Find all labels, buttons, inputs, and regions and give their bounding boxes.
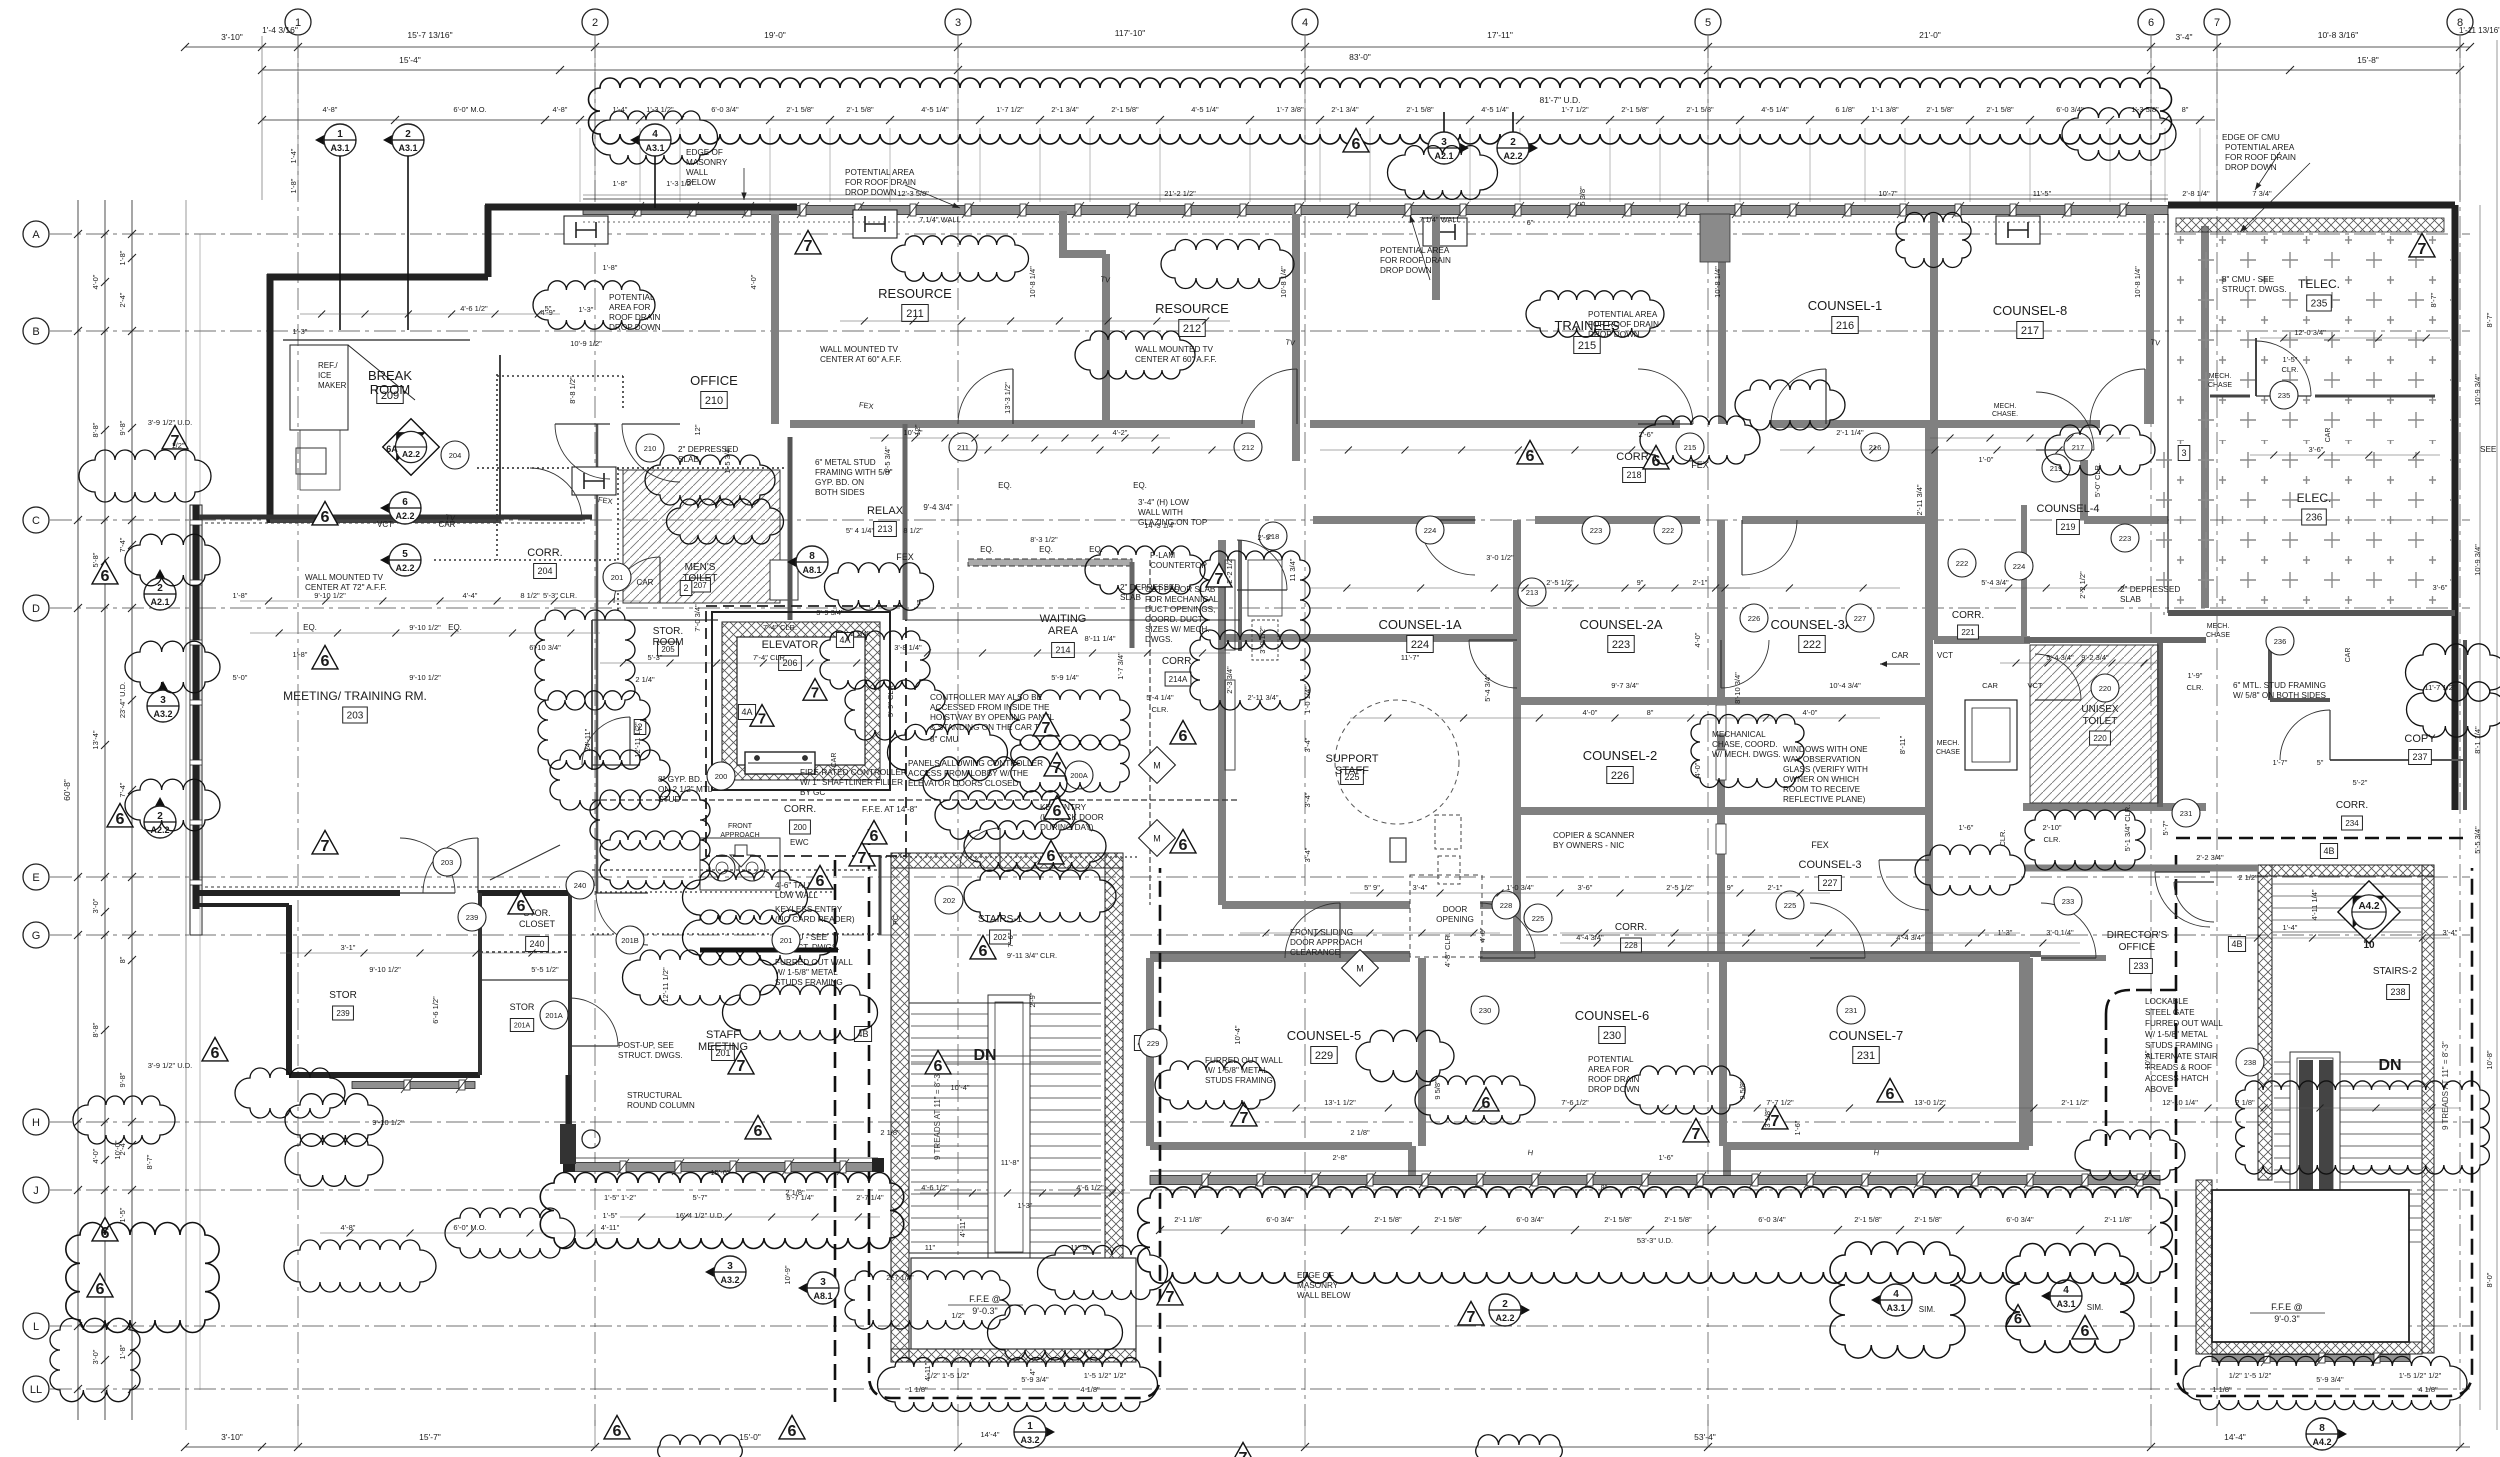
svg-text:215: 215 [1684,443,1697,452]
svg-text:ELEVATOR DOORS CLOSED: ELEVATOR DOORS CLOSED [908,779,1019,788]
svg-text:6: 6 [517,897,526,915]
boxed tag 236 [2302,509,2327,525]
svg-text:200A: 200A [1070,771,1088,780]
svg-text:7'-6": 7'-6" [1006,932,1015,947]
svg-text:POTENTIAL AREA: POTENTIAL AREA [845,168,915,177]
svg-text:8'-8 1/2": 8'-8 1/2" [568,376,577,404]
svg-text:WAY OBSERVATION: WAY OBSERVATION [1783,755,1861,764]
svg-text:STOR: STOR [329,990,357,1001]
wall [1150,1142,1412,1150]
svg-text:9'-11 3/4" CLR.: 9'-11 3/4" CLR. [1007,951,1057,960]
svg-text:10'-9": 10'-9" [783,1265,792,1284]
svg-text:222: 222 [1803,639,1821,651]
wall [1770,420,2100,428]
svg-text:4'-0": 4'-0" [1693,762,1702,777]
svg-text:BY OWNERS - NIC: BY OWNERS - NIC [1553,841,1624,850]
svg-text:10'-4 3/4": 10'-4 3/4" [1829,681,1861,690]
revision cloud [1830,1242,1965,1358]
boxed tag 231 [1853,1047,1879,1064]
boxed tag 201A [510,1019,533,1032]
svg-text:WINDOWS WITH ONE: WINDOWS WITH ONE [1783,745,1868,754]
revision cloud [1388,146,1498,200]
svg-text:7: 7 [1467,1308,1476,1326]
wall [2168,202,2455,209]
svg-text:FOR ROOF DRAIN: FOR ROOF DRAIN [845,178,916,187]
boxed tag 229 [1311,1047,1337,1064]
svg-text:1 1/8": 1 1/8" [908,1385,928,1394]
revision cloud [1075,331,1195,379]
corr 234 boundary dashed [2176,837,2470,840]
svg-text:8" CMU: 8" CMU [930,735,958,744]
structural round column [582,1130,600,1148]
svg-text:2 1/2": 2 1/2" [2238,873,2258,882]
svg-text:3'-6": 3'-6" [1578,883,1593,892]
svg-text:MASONRY: MASONRY [1297,1281,1339,1290]
grid bubble 7 [2204,9,2230,35]
bottom dimension strings [185,1446,2470,1448]
svg-text:(NO CARD READER): (NO CARD READER) [775,915,855,924]
support staff dashed circle [1335,700,1459,824]
svg-text:TV: TV [1285,337,1296,347]
section marker 4/A3.1 [2041,1282,2066,1309]
boxed tag 211 [902,305,928,322]
wall [1150,954,1410,962]
svg-text:10'-8 1/4": 10'-8 1/4" [1713,266,1722,298]
wall [2201,226,2209,608]
boxed tag 239 [333,1006,354,1020]
svg-text:1 1/8": 1 1/8" [2212,1385,2232,1394]
svg-text:FRONT: FRONT [728,823,753,830]
boxed tag 234 [2342,816,2363,830]
svg-text:8": 8" [118,956,127,963]
svg-text:WALL WITH: WALL WITH [1138,508,1183,517]
wall [1930,214,1938,424]
wall [1222,634,1517,642]
boxed tag 228 [1621,938,1642,952]
svg-text:4'-6 1/2": 4'-6 1/2" [460,304,488,313]
svg-text:83'-0": 83'-0" [1349,52,1371,62]
svg-text:17'-11": 17'-11" [1487,30,1513,40]
svg-text:11": 11" [925,1243,936,1252]
svg-text:4'-8" CLR.: 4'-8" CLR. [1443,933,1452,967]
svg-text:2'-1 5/8": 2'-1 5/8" [1434,1215,1462,1224]
svg-text:4: 4 [1302,17,1308,29]
svg-text:7: 7 [2418,240,2427,258]
svg-text:8": 8" [1601,1183,1608,1192]
svg-text:1'-8": 1'-8" [233,591,248,600]
svg-text:CLR.: CLR. [2186,683,2203,692]
revision triangle 7 [1033,712,1059,735]
svg-text:6'-0 3/4": 6'-0 3/4" [2006,1215,2034,1224]
section marker 4/A3.1 [630,126,655,153]
revision triangle 6 [1473,1087,1499,1110]
svg-text:10'-9 3/4": 10'-9 3/4" [2473,544,2482,576]
boxed tag 203 [343,707,368,723]
svg-text:201A: 201A [514,1023,531,1030]
grid bubble 4 [1292,9,1318,35]
svg-text:9'-10 1/2": 9'-10 1/2" [409,623,441,632]
svg-text:E: E [32,872,39,884]
door swing [614,557,660,603]
svg-text:BY GC: BY GC [800,788,825,797]
svg-text:COPY: COPY [2404,733,2436,745]
svg-text:223: 223 [2119,534,2132,543]
revision cloud [683,871,808,924]
revision cloud [645,455,775,505]
svg-text:2'-1 5/8": 2'-1 5/8" [1914,1215,1942,1224]
door swing [596,893,648,945]
revision cloud [1011,735,1130,792]
svg-text:236: 236 [2274,637,2287,646]
svg-text:4'-5 1/4": 4'-5 1/4" [1761,105,1789,114]
svg-text:FRAMING WITH 5/8": FRAMING WITH 5/8" [815,468,893,477]
svg-text:1'-7 3/8": 1'-7 3/8" [1276,105,1304,114]
svg-text:2: 2 [405,129,411,140]
boxed tag 214 [1052,643,1075,658]
svg-text:226: 226 [1748,614,1761,623]
svg-text:POTENTIAL AREA: POTENTIAL AREA [1380,246,1450,255]
svg-text:7: 7 [1239,1449,1248,1457]
svg-text:11'-8": 11'-8" [1001,1158,1020,1167]
revision triangle 7 [1230,1442,1256,1457]
revision triangle 7 [795,230,821,253]
svg-text:8'-7": 8'-7" [145,1154,154,1169]
svg-text:4'-11": 4'-11" [958,1218,967,1237]
revision triangle 6 [807,865,833,888]
svg-text:STRUCT. DWGS.: STRUCT. DWGS. [2222,285,2287,294]
svg-text:CLOSET: CLOSET [519,919,556,929]
svg-text:ICE: ICE [318,371,331,380]
svg-text:REFLECTIVE PLANE): REFLECTIVE PLANE) [1783,795,1866,804]
svg-text:FIRE-RATED CONTROLLER: FIRE-RATED CONTROLLER [800,768,907,777]
svg-text:2 1/8": 2 1/8" [2235,1098,2255,1107]
wall [2021,505,2027,640]
svg-text:SUPPORT: SUPPORT [1326,753,1379,765]
revision cloud [600,831,710,889]
right column TELEC/ELEC block [2167,214,2169,613]
svg-text:C: C [32,515,40,527]
svg-text:8'-3 1/2": 8'-3 1/2" [1030,535,1058,544]
svg-text:COUNSEL-5: COUNSEL-5 [1287,1028,1361,1043]
svg-text:7 1/4" WALL: 7 1/4" WALL [919,215,961,224]
svg-text:2'-10": 2'-10" [2042,823,2061,832]
svg-text:1'-0 3/4": 1'-0 3/4" [1506,883,1534,892]
svg-text:SLAB: SLAB [2120,595,2141,604]
svg-text:POTENTIAL: POTENTIAL [609,293,655,302]
wall [2025,958,2033,1146]
boxed tag 201 [712,1046,735,1061]
revision cloud [1155,1061,1275,1109]
svg-text:STAIRS-2: STAIRS-2 [2373,966,2418,977]
boxed tag 233 [2130,959,2153,974]
svg-text:6" METAL STUD: 6" METAL STUD [815,458,876,467]
wall [1480,954,2030,962]
door number circles [441,441,469,469]
svg-text:9'-8": 9'-8" [118,420,127,435]
svg-text:DIRECTOR'S: DIRECTOR'S [2107,930,2168,941]
svg-text:B: B [32,326,39,338]
svg-text:228: 228 [1500,901,1513,910]
svg-text:1'-7 1/2": 1'-7 1/2" [996,105,1024,114]
svg-text:7: 7 [858,849,867,867]
boxed tag 205 [658,642,679,656]
revision cloud [1476,1435,1563,1457]
svg-text:4'-2": 4'-2" [1113,428,1128,437]
wall [1313,516,1475,524]
revision triangle 7 [1762,1105,1788,1128]
svg-text:EQ.: EQ. [448,623,462,632]
svg-text:230: 230 [1479,1006,1492,1015]
svg-text:2 1/4": 2 1/4" [635,675,655,684]
svg-text:217: 217 [2072,443,2085,452]
svg-text:13'-0 1/2": 13'-0 1/2" [1914,1098,1946,1107]
svg-text:4A: 4A [741,707,752,717]
svg-text:4'-8": 4'-8" [323,105,338,114]
svg-text:1'-5 1/2" 1/2": 1'-5 1/2" 1/2" [1084,1371,1127,1380]
revision cloud [66,1223,219,1333]
svg-text:A3.1: A3.1 [398,143,417,153]
svg-text:LL: LL [30,1384,42,1396]
svg-text:2'-1 3/4": 2'-1 3/4" [1051,105,1079,114]
svg-text:8'-8": 8'-8" [91,422,100,437]
bottom extension lines to dim row [297,1420,299,1447]
revision cloud [667,499,784,544]
revision triangle 6 [2006,1305,2030,1327]
svg-text:81'-7" U.D.: 81'-7" U.D. [1539,95,1580,105]
revision cloud [1138,1187,2173,1283]
svg-text:7'-4": 7'-4" [118,537,127,552]
svg-text:10'-0": 10'-0" [113,1140,122,1159]
svg-text:15'-0": 15'-0" [739,1432,761,1442]
revision cloud [73,1096,175,1144]
svg-text:224: 224 [1424,526,1437,535]
boxed tag 224 [1407,636,1433,653]
svg-text:2'-8": 2'-8" [1333,1153,1348,1162]
revision cloud [1200,551,1310,649]
boxed tag 214A [1165,672,1191,686]
svg-text:STAFF: STAFF [1335,765,1369,777]
revision cloud [623,950,778,1005]
svg-text:3'-0 1/2": 3'-0 1/2" [1486,553,1514,562]
revision cloud [538,691,650,769]
grid bubble J [23,1177,49,1203]
section marker 2/A2.1 [146,569,173,594]
svg-text:6: 6 [2081,1322,2090,1340]
door swing [2041,903,2096,958]
svg-text:ELEVATOR: ELEVATOR [762,639,819,651]
svg-text:6: 6 [816,872,825,890]
svg-text:2: 2 [1510,137,1516,148]
svg-text:225: 225 [1532,914,1545,923]
revision cloud [2045,425,2155,475]
svg-text:9'-10 1/2": 9'-10 1/2" [314,591,346,600]
svg-text:WALL BELOW: WALL BELOW [1297,1291,1351,1300]
svg-text:6: 6 [211,1044,220,1062]
grid bubble 6 [2138,9,2164,35]
svg-text:4'-11": 4'-11" [601,1223,620,1232]
svg-text:12": 12" [693,424,702,435]
svg-text:LOW WALL: LOW WALL [775,891,818,900]
svg-text:8: 8 [2319,1423,2325,1434]
svg-text:1'-5" 1'-2": 1'-5" 1'-2" [604,1193,636,1202]
svg-text:5'-9 3/4": 5'-9 3/4" [2316,1375,2344,1384]
svg-text:6: 6 [979,942,988,960]
boxed tag 200 [790,820,811,834]
revision cloud [1085,546,1205,594]
right side dim verticals [2479,205,2481,1410]
revision triangle 6 [87,1273,113,1296]
svg-text:CORR.: CORR. [2336,800,2368,811]
svg-text:1'-6": 1'-6" [1959,823,1974,832]
svg-text:6: 6 [613,1422,622,1440]
svg-text:2'-1 1/8": 2'-1 1/8" [1174,1215,1202,1224]
svg-text:DN: DN [2378,1057,2401,1074]
stor closet 240 walls [480,951,570,953]
svg-text:227: 227 [1822,878,1837,888]
svg-text:5'-4 3/4": 5'-4 3/4" [1483,674,1492,702]
boxed tag 2 [634,720,646,735]
svg-text:7'-4" CLR.: 7'-4" CLR. [753,653,787,662]
svg-text:6'-0" M.O.: 6'-0" M.O. [453,105,486,114]
revision triangle 7 [1231,1102,1257,1125]
svg-text:6: 6 [96,1280,105,1298]
grid bubble A [23,221,49,247]
svg-text:2" DEPRESSED: 2" DEPRESSED [2120,585,2180,594]
svg-text:FOR ROOF DRAIN: FOR ROOF DRAIN [1588,320,1659,329]
svg-text:VCT: VCT [1937,651,1953,660]
svg-text:CAR: CAR [2325,428,2332,443]
svg-text:211: 211 [957,443,969,452]
svg-text:ROOF DRAIN: ROOF DRAIN [1588,1075,1639,1084]
svg-text:3'-9 3/4": 3'-9 3/4" [816,608,844,617]
wall [1723,1146,1731,1176]
svg-text:ACCESS HATCH: ACCESS HATCH [2145,1074,2209,1083]
svg-text:9'-0.3": 9'-0.3" [2274,1314,2299,1324]
revision cloud [878,1358,1158,1412]
svg-text:8": 8" [2182,105,2189,114]
svg-text:DURING DAY): DURING DAY) [1040,823,1094,832]
svg-text:A8.1: A8.1 [813,1291,832,1301]
revision cloud [964,821,1106,871]
revision cloud [892,236,1029,281]
svg-text:EWC: EWC [790,838,809,847]
revision triangle 6 [312,501,338,524]
svg-text:3'-4": 3'-4" [1303,847,1312,862]
svg-text:21'-0": 21'-0" [1919,30,1941,40]
svg-text:4'-11 1/4": 4'-11 1/4" [2310,889,2319,920]
svg-text:10'-7": 10'-7" [1878,189,1897,198]
svg-text:1'-5 3/4": 1'-5 3/4" [723,446,732,474]
svg-text:H: H [32,1117,40,1129]
svg-text:A3.1: A3.1 [2056,1299,2075,1309]
svg-text:1/2" 1'-5 1/2": 1/2" 1'-5 1/2" [927,1371,970,1380]
grid bubble LL [23,1376,49,1402]
revision cloud [2407,682,2500,737]
svg-text:STEEL GATE: STEEL GATE [2145,1008,2195,1017]
boxed tag 4B [2228,937,2245,952]
svg-text:CAR: CAR [1982,681,1998,690]
svg-text:W/ MECH. DWGS.: W/ MECH. DWGS. [1712,750,1781,759]
svg-text:8'-0": 8'-0" [2485,1272,2494,1287]
svg-text:VCT: VCT [2028,681,2043,690]
revision triangle 6 [107,803,133,826]
revision cloud [50,1318,140,1401]
svg-text:COUNSEL-3: COUNSEL-3 [1799,859,1862,871]
svg-text:5'-1 3/4" CLR.: 5'-1 3/4" CLR. [2123,805,2132,852]
svg-text:SEE: SEE [2480,445,2497,454]
svg-text:CENTER AT 60" A.F.F.: CENTER AT 60" A.F.F. [1135,355,1217,364]
boxed tag 2 [680,581,692,596]
svg-text:2'-1 5/8": 2'-1 5/8" [1621,105,1649,114]
svg-text:1'-7 3/4": 1'-7 3/4" [1116,652,1125,680]
revision cloud [923,757,1067,809]
svg-text:6: 6 [1179,836,1188,854]
stairs-1 lower room [911,1258,1136,1349]
svg-text:2'-5 1/2": 2'-5 1/2" [1666,883,1694,892]
svg-text:117'-10": 117'-10" [1115,28,1145,38]
svg-text:237: 237 [2412,752,2427,762]
wall [1742,516,1930,524]
revision cloud [1038,1246,1168,1300]
svg-text:7: 7 [804,237,813,255]
svg-text:202: 202 [943,896,956,905]
svg-text:9'-10 1/2": 9'-10 1/2" [372,1118,404,1127]
detail marker [383,419,440,476]
door swing [1420,520,1475,575]
svg-text:COUNSEL-2: COUNSEL-2 [1583,748,1657,763]
svg-text:2'-1 1/8": 2'-1 1/8" [2104,1215,2132,1224]
svg-text:LOCKABLE: LOCKABLE [2145,997,2189,1006]
svg-text:3'-4": 3'-4" [1413,883,1428,892]
door swing [2090,369,2145,424]
svg-text:AREA FOR: AREA FOR [1588,1065,1629,1074]
wall [1480,951,2041,957]
svg-text:1'-4 3/16": 1'-4 3/16" [262,25,298,35]
svg-text:6: 6 [2014,1311,2022,1327]
wall [566,1075,571,1163]
svg-text:FEX: FEX [1811,840,1829,850]
door swing [2256,341,2311,396]
svg-text:POTENTIAL AREA: POTENTIAL AREA [1588,310,1658,319]
svg-text:6A: 6A [386,444,398,454]
door swing [1480,903,1535,958]
svg-text:EQ.: EQ. [1133,481,1147,490]
svg-text:2'-1 5/8": 2'-1 5/8" [1686,105,1714,114]
svg-text:212: 212 [1183,323,1201,335]
revision cloud [535,610,635,710]
svg-text:10'-8 1/4": 10'-8 1/4" [1028,266,1037,298]
svg-text:6: 6 [321,508,330,526]
section marker 6/A2.2 [380,494,405,521]
boxed tag 4A [836,633,853,648]
svg-text:CLR.: CLR. [2281,365,2298,374]
wall [1717,520,1725,954]
svg-text:EDGE OF: EDGE OF [686,148,723,157]
grid bubble B [23,318,49,344]
svg-text:TOILET: TOILET [2083,716,2118,727]
svg-text:4'-0": 4'-0" [749,274,758,289]
wall [2463,640,2467,810]
svg-text:239: 239 [466,913,479,922]
svg-text:2'-1 1/4": 2'-1 1/4" [1836,428,1864,437]
svg-text:6'-6 1/2": 6'-6 1/2" [431,996,440,1024]
wall [2025,865,2258,872]
svg-text:CLR.: CLR. [1151,705,1168,714]
door swing [530,468,582,520]
svg-text:CAR: CAR [637,578,654,587]
revision cloud [1010,690,1130,750]
front entry EWC [700,838,780,890]
